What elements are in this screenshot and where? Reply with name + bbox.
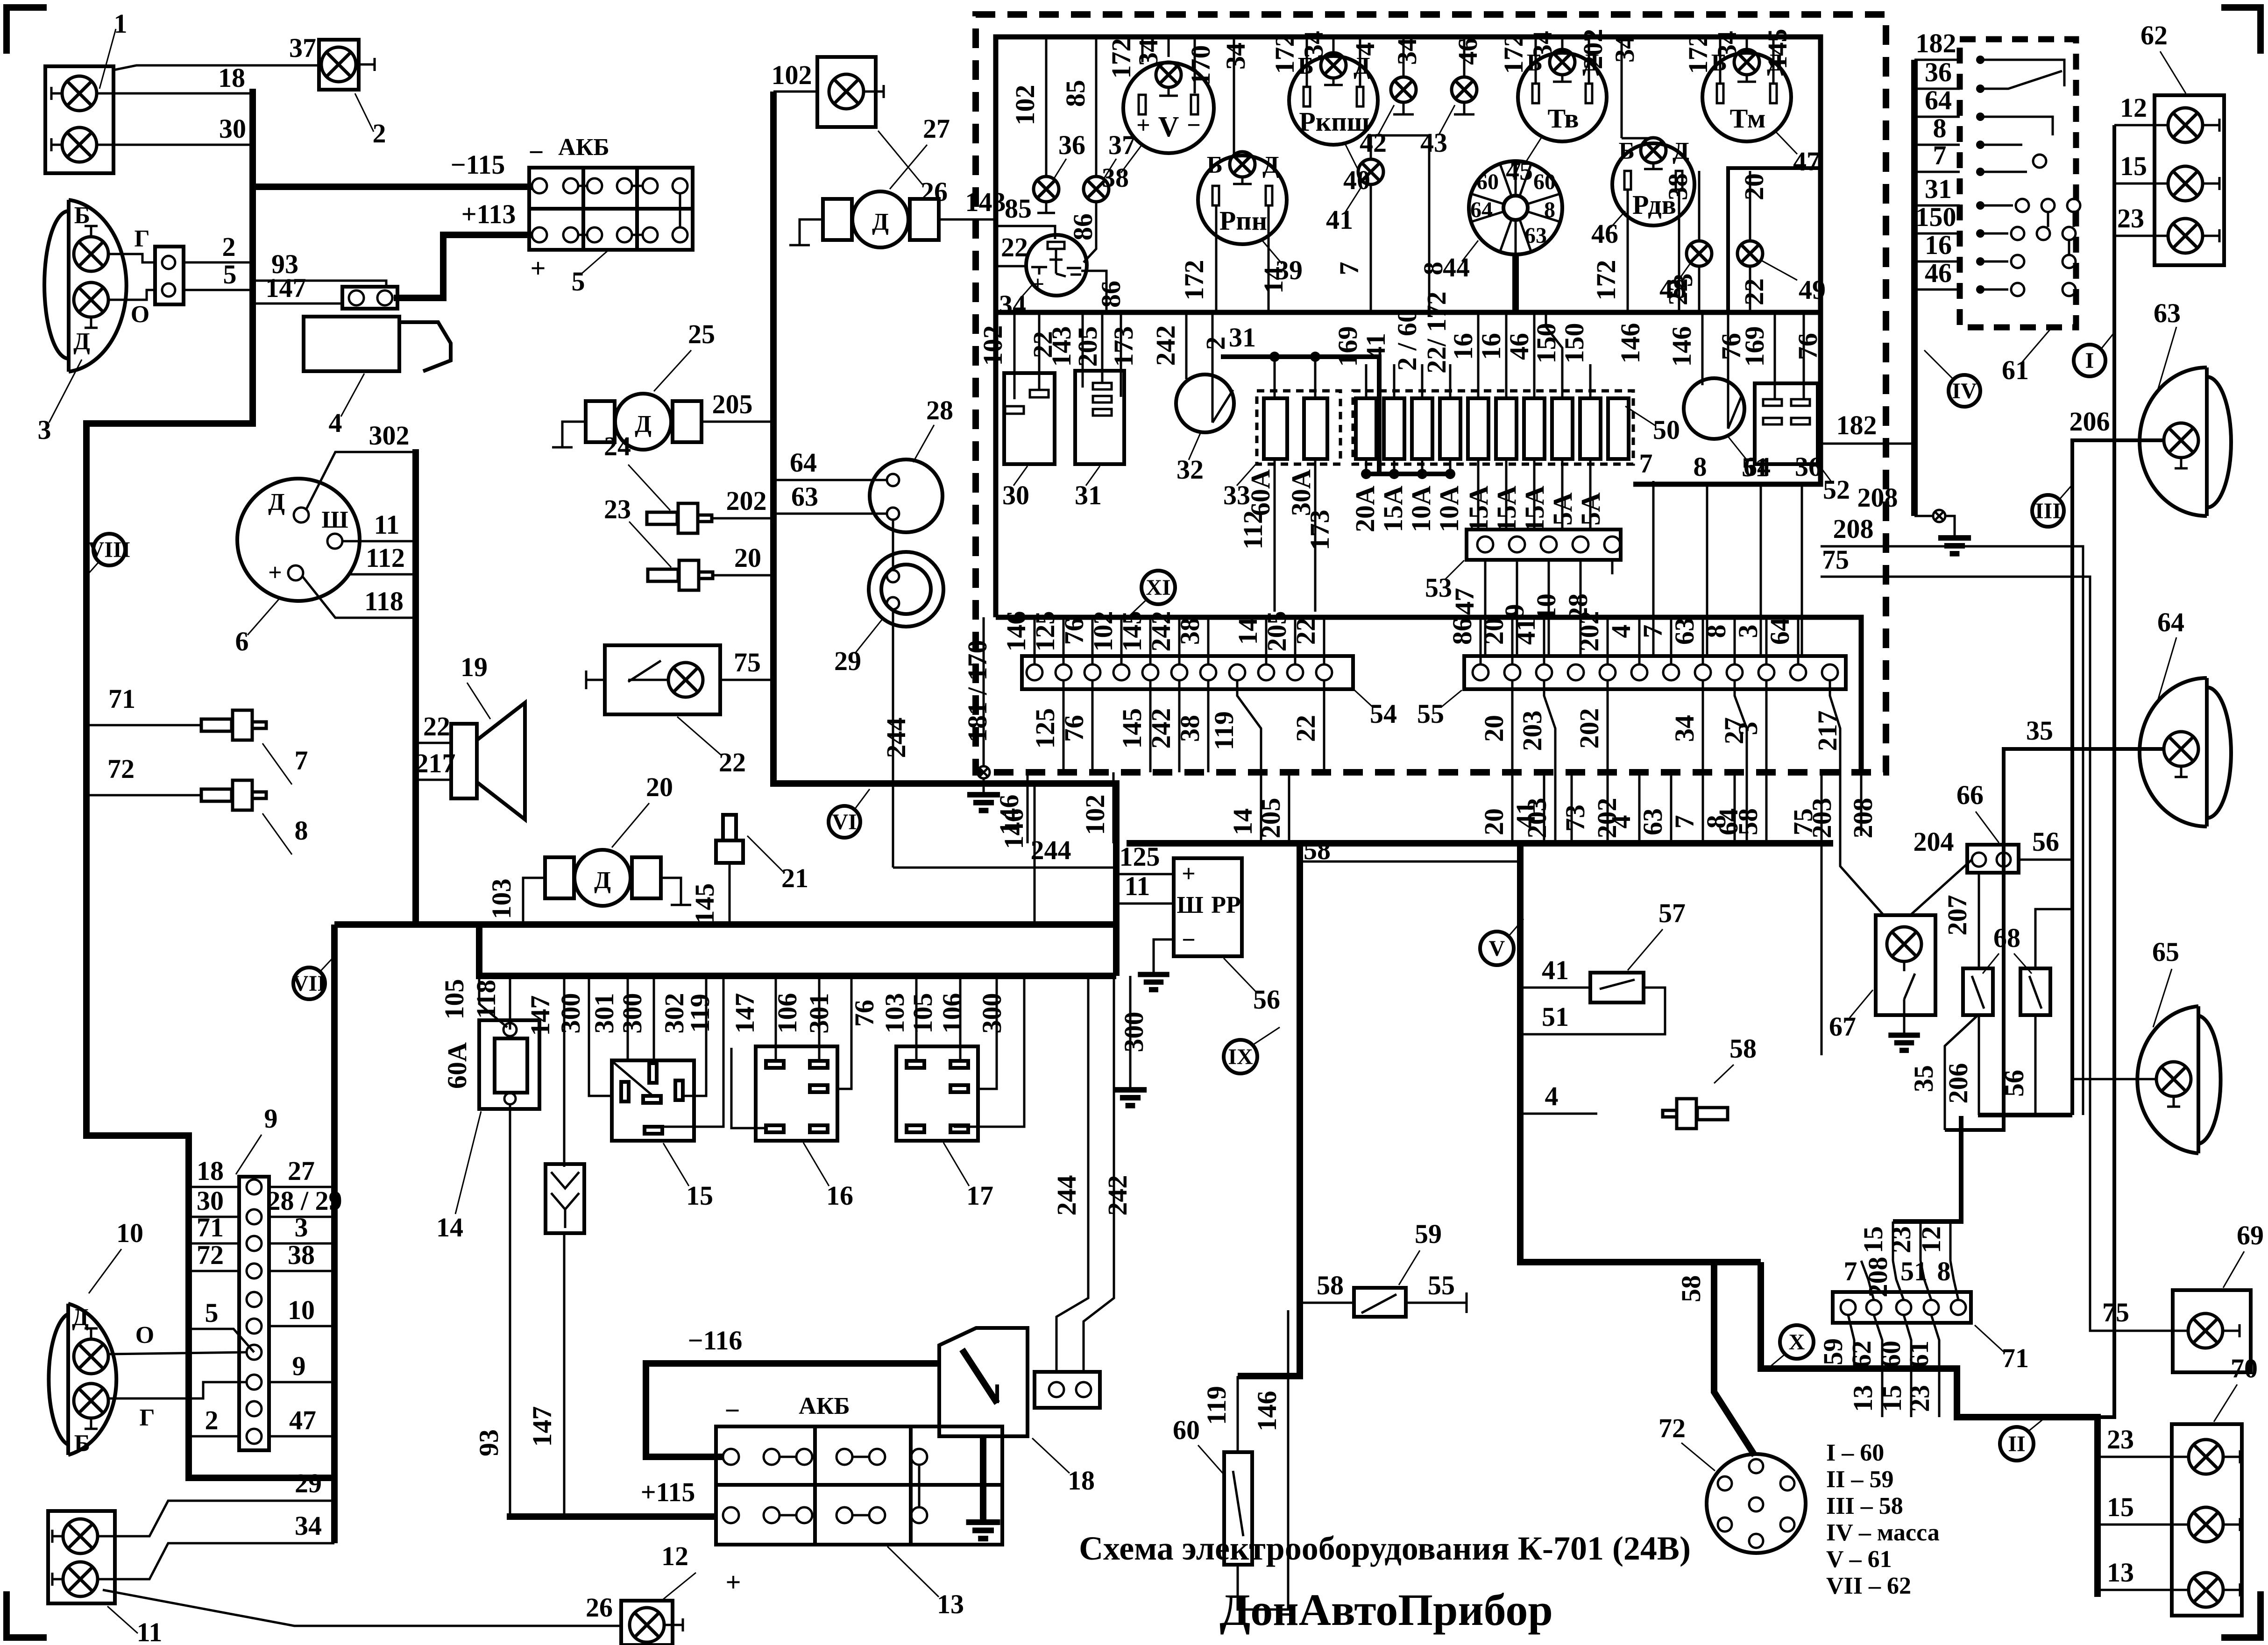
- svg-text:14: 14: [1233, 618, 1263, 645]
- svg-text:2: 2: [222, 232, 236, 262]
- connector 61 (dashed box with switch contacts): [1960, 39, 2080, 385]
- svg-text:30: 30: [219, 113, 246, 144]
- svg-text:61: 61: [2002, 355, 2029, 385]
- 15A/5A fuse drops to connector 53: [1477, 459, 1480, 530]
- svg-text:75: 75: [734, 647, 761, 678]
- wires below panel dashed border: [994, 772, 1885, 1055]
- svg-text:47: 47: [1793, 146, 1820, 177]
- wires below 68: [1945, 1015, 1978, 1130]
- svg-text:Д: Д: [268, 489, 285, 515]
- svg-text:4: 4: [1350, 42, 1380, 56]
- svg-text:34: 34: [1133, 39, 1163, 66]
- chevron arrow (to starter): [546, 1164, 584, 1233]
- svg-text:51: 51: [1542, 1002, 1569, 1032]
- switch 18 connector: [1035, 1372, 1100, 1408]
- svg-text:85: 85: [1060, 80, 1091, 107]
- svg-text:86: 86: [1447, 618, 1477, 645]
- svg-text:8: 8: [1544, 198, 1555, 222]
- wire -116 (thick): [646, 1363, 939, 1457]
- svg-text:41: 41: [1510, 801, 1541, 828]
- svg-text:125: 125: [1030, 611, 1060, 652]
- svg-text:55: 55: [1417, 699, 1444, 729]
- svg-text:208: 208: [1848, 798, 1878, 839]
- svg-text:45: 45: [1506, 155, 1533, 186]
- svg-text:35: 35: [2026, 715, 2053, 746]
- svg-text:38: 38: [1102, 162, 1129, 193]
- lamp-switch 67: [1829, 915, 1935, 1051]
- svg-text:22: 22: [719, 747, 746, 777]
- svg-text:20А: 20А: [1350, 486, 1380, 532]
- svg-text:VII – 62: VII – 62: [1826, 1573, 1911, 1599]
- headlight 63: [2140, 298, 2231, 516]
- svg-text:53: 53: [1425, 572, 1452, 603]
- svg-text:41: 41: [1542, 955, 1569, 985]
- gauge 39 (Рпн): [1198, 152, 1303, 285]
- svg-text:14: 14: [1227, 808, 1258, 835]
- svg-text:242: 242: [1146, 611, 1176, 652]
- svg-text:20: 20: [734, 543, 761, 573]
- svg-text:−: −: [528, 137, 544, 167]
- svg-text:+: +: [268, 559, 282, 586]
- svg-text:16: 16: [1448, 333, 1478, 360]
- motor 20 (Д): [545, 772, 691, 906]
- lamp unit 1 (box with two lamps): [45, 8, 128, 173]
- wire 202: [712, 517, 773, 520]
- svg-text:Ш: Ш: [321, 507, 348, 533]
- svg-text:34: 34: [1609, 35, 1640, 63]
- svg-text:34: 34: [1527, 31, 1558, 58]
- svg-text:60: 60: [1476, 169, 1499, 194]
- wire -115 (thick to battery): [253, 184, 532, 190]
- svg-text:59: 59: [1415, 1219, 1442, 1249]
- headlight 10: [49, 1218, 143, 1457]
- svg-text:208: 208: [1833, 514, 1874, 544]
- wire 56 from 66: [2019, 859, 2072, 861]
- svg-text:9: 9: [1499, 604, 1530, 618]
- wire 58 horizontal to PP area: [1300, 861, 1520, 863]
- svg-text:АКБ: АКБ: [558, 134, 610, 161]
- socket 28: [870, 395, 953, 532]
- node VIII: [88, 534, 130, 574]
- box 66: [1956, 780, 2019, 873]
- svg-text:34: 34: [1669, 715, 1700, 742]
- svg-text:302: 302: [369, 420, 410, 451]
- wire 75 to 69: [2090, 1055, 2188, 1331]
- lamp unit 62: [2140, 20, 2224, 265]
- gauge 46 (Рдв): [1591, 138, 1694, 249]
- svg-text:38: 38: [1663, 173, 1693, 200]
- node X: [1768, 1325, 1814, 1369]
- svg-text:11: 11: [137, 1617, 163, 1645]
- svg-text:Ш: Ш: [1177, 892, 1203, 918]
- wire 207: [1978, 873, 1980, 968]
- battery AKB 5: [528, 134, 693, 297]
- svg-text:202: 202: [1578, 29, 1608, 70]
- lamp 43: [1420, 37, 1477, 158]
- svg-text:23: 23: [1905, 1385, 1935, 1412]
- wire 35: [1945, 749, 2164, 1130]
- svg-text:24: 24: [604, 431, 631, 461]
- svg-text:15А: 15А: [1463, 486, 1494, 532]
- svg-text:13: 13: [1848, 1385, 1878, 1412]
- gauge 40 (Ркпш): [1289, 53, 1378, 195]
- svg-text:+: +: [1031, 271, 1045, 297]
- svg-text:146: 146: [1615, 323, 1645, 364]
- svg-text:75: 75: [1822, 544, 1849, 575]
- svg-text:РР: РР: [1211, 892, 1241, 918]
- wire 37 to lamp 2: [113, 65, 319, 70]
- lamp 37: [1084, 37, 1135, 262]
- svg-text:60: 60: [1533, 169, 1556, 194]
- svg-text:20: 20: [1479, 715, 1509, 742]
- svg-text:38: 38: [288, 1240, 315, 1270]
- legend: [1826, 1440, 1940, 1599]
- svg-text:22: 22: [1001, 232, 1028, 262]
- svg-text:208: 208: [1857, 482, 1898, 513]
- svg-text:76: 76: [1793, 333, 1823, 360]
- svg-text:181 / 170: 181 / 170: [962, 640, 992, 742]
- lamp 26 (top, cab lamp): [817, 57, 948, 207]
- svg-text:62: 62: [2140, 20, 2168, 50]
- sensor 58: [1520, 1033, 1757, 1129]
- svg-text:72: 72: [197, 1240, 224, 1270]
- svg-text:3: 3: [1733, 625, 1763, 638]
- svg-text:Тв: Тв: [1547, 103, 1579, 134]
- svg-text:30: 30: [197, 1186, 224, 1216]
- node I: [2074, 332, 2114, 376]
- gauge 38 (V voltmeter): [1102, 37, 1214, 193]
- svg-text:242: 242: [1102, 1175, 1133, 1216]
- svg-text:57: 57: [1658, 898, 1686, 928]
- svg-text:63: 63: [1669, 618, 1700, 645]
- svg-text:169: 169: [1332, 326, 1363, 367]
- relay 16: [756, 1046, 853, 1211]
- svg-text:68: 68: [1993, 923, 2020, 953]
- wire 11: [342, 540, 416, 543]
- svg-text:II: II: [2008, 1432, 2025, 1456]
- svg-text:56: 56: [1999, 1070, 2029, 1097]
- svg-text:4: 4: [1545, 1081, 1559, 1111]
- wire 170: [1194, 37, 1196, 93]
- connector 71 top stubs: [1844, 1116, 1962, 1300]
- svg-text:8: 8: [1937, 1256, 1951, 1286]
- svg-text:13: 13: [2107, 1557, 2134, 1588]
- svg-text:86: 86: [1068, 213, 1098, 240]
- svg-text:172: 172: [1269, 34, 1300, 74]
- svg-text:63: 63: [1524, 223, 1547, 248]
- wires below connector 53: [1484, 560, 1487, 656]
- svg-text:172: 172: [1683, 34, 1713, 74]
- svg-text:76: 76: [1059, 715, 1089, 742]
- svg-text:27: 27: [923, 113, 950, 144]
- wire Г from lamp to block: [108, 254, 155, 262]
- svg-text:2: 2: [205, 1405, 219, 1435]
- svg-text:64: 64: [1765, 618, 1795, 645]
- svg-text:34: 34: [295, 1511, 322, 1541]
- svg-text:206: 206: [2070, 406, 2110, 437]
- lamp 12: [621, 1541, 696, 1645]
- svg-text:67: 67: [1829, 1011, 1856, 1042]
- svg-text:145: 145: [689, 883, 720, 924]
- svg-text:146: 146: [1666, 326, 1697, 367]
- node III: [2032, 485, 2072, 527]
- svg-text:65: 65: [2152, 937, 2179, 967]
- svg-text:О: О: [131, 301, 149, 328]
- svg-text:23: 23: [2107, 1424, 2134, 1454]
- fuse block 33: [1223, 391, 1340, 516]
- svg-text:5А: 5А: [1575, 492, 1606, 525]
- lamp 42: [1360, 37, 1416, 158]
- wire 72: [86, 794, 201, 797]
- wire 217 to horn: [416, 779, 451, 781]
- svg-text:11: 11: [374, 509, 400, 540]
- svg-text:8: 8: [1701, 625, 1731, 638]
- svg-text:145: 145: [1117, 708, 1147, 749]
- svg-text:20: 20: [1739, 173, 1769, 200]
- svg-text:15: 15: [1877, 1385, 1907, 1412]
- svg-text:41: 41: [1510, 618, 1541, 645]
- svg-text:7: 7: [1844, 1256, 1857, 1286]
- svg-text:Д: Д: [635, 411, 652, 438]
- svg-text:19: 19: [461, 652, 488, 682]
- headlight 64: [2140, 607, 2231, 826]
- svg-text:205: 205: [1072, 326, 1103, 367]
- svg-text:16: 16: [826, 1180, 853, 1211]
- main right bus I: [2098, 125, 2114, 1417]
- wire 118 below fuse: [509, 1104, 511, 1517]
- VII header bus: [334, 921, 1116, 928]
- svg-text:55: 55: [1428, 1270, 1455, 1300]
- svg-text:103: 103: [486, 879, 517, 919]
- svg-text:242: 242: [1146, 708, 1176, 749]
- svg-text:15: 15: [686, 1180, 713, 1211]
- VI bus vertical: [773, 92, 1116, 976]
- svg-text:18: 18: [218, 63, 245, 93]
- svg-text:205: 205: [712, 389, 753, 419]
- svg-text:300: 300: [555, 993, 586, 1034]
- connector 55: [1417, 656, 1846, 729]
- svg-text:103: 103: [879, 993, 910, 1034]
- terminal block of headlight 3: [155, 247, 184, 304]
- svg-text:Б: Б: [1619, 138, 1635, 164]
- wire 2: [184, 261, 252, 264]
- svg-text:102: 102: [1080, 795, 1110, 835]
- connector 53: [1425, 530, 1621, 603]
- switch 57: [1520, 898, 1686, 1034]
- svg-text:54: 54: [1370, 699, 1397, 729]
- svg-text:64: 64: [1470, 198, 1493, 222]
- svg-text:206: 206: [1943, 1063, 1973, 1104]
- svg-text:35: 35: [1908, 1065, 1939, 1092]
- connector 71 bottom stubs: [1818, 1315, 1939, 1417]
- svg-text:26: 26: [586, 1592, 613, 1623]
- svg-text:13: 13: [937, 1589, 964, 1619]
- relay area drop wires: [439, 976, 1149, 1167]
- svg-text:Тм: Тм: [1730, 103, 1766, 134]
- svg-text:173: 173: [1304, 510, 1335, 551]
- connector 72: [1658, 1413, 1806, 1553]
- wire 75: [720, 679, 773, 681]
- svg-text:63: 63: [2154, 298, 2181, 328]
- headlight 10 leads: [108, 1352, 247, 1354]
- corner mark top-left: [7, 7, 47, 54]
- svg-text:V – 61: V – 61: [1826, 1546, 1892, 1573]
- svg-text:Д: Д: [72, 1304, 89, 1331]
- motor 25 (Д): [552, 319, 715, 450]
- svg-text:300: 300: [1119, 1012, 1149, 1052]
- svg-text:60: 60: [1876, 1341, 1906, 1368]
- wires 7 8: [1371, 135, 1429, 312]
- svg-text:64: 64: [790, 447, 817, 478]
- wire 102: [773, 91, 817, 93]
- svg-text:Д: Д: [1262, 152, 1279, 178]
- switch 51: [1666, 312, 1769, 482]
- svg-text:47: 47: [289, 1405, 316, 1435]
- svg-text:5А: 5А: [1547, 492, 1578, 525]
- svg-text:Б: Б: [74, 1430, 90, 1457]
- wire 208: [1821, 546, 2083, 1115]
- node IX: [1224, 1027, 1280, 1073]
- svg-text:18: 18: [197, 1156, 224, 1186]
- svg-text:70: 70: [2231, 1353, 2258, 1384]
- svg-text:112: 112: [1238, 510, 1268, 550]
- fuse block 50: [1353, 391, 1680, 464]
- svg-text:IV: IV: [1952, 379, 1977, 403]
- svg-text:208: 208: [1863, 1257, 1893, 1298]
- svg-text:Б: Б: [1207, 152, 1223, 178]
- svg-text:71: 71: [197, 1212, 224, 1243]
- wire 75: [1821, 577, 2090, 1055]
- svg-text:22: 22: [1290, 715, 1321, 742]
- svg-text:15: 15: [2107, 1492, 2134, 1522]
- wire 244 horizontal: [893, 867, 1116, 869]
- connector 54 top wires: [1001, 611, 1324, 665]
- svg-text:71: 71: [2002, 1343, 2029, 1373]
- svg-text:38: 38: [1175, 715, 1205, 742]
- svg-text:300: 300: [977, 993, 1007, 1034]
- svg-text:150: 150: [1916, 202, 1956, 232]
- wire О from lamp to block: [108, 290, 155, 300]
- svg-text:119: 119: [1209, 711, 1239, 750]
- wire 64: [773, 479, 887, 481]
- svg-text:41: 41: [1361, 333, 1391, 360]
- svg-text:102: 102: [978, 325, 1008, 366]
- svg-text:+: +: [1182, 861, 1196, 887]
- node V: [1480, 919, 1524, 965]
- svg-text:205: 205: [1262, 611, 1292, 652]
- svg-text:−115: −115: [451, 149, 505, 180]
- svg-text:15А: 15А: [1378, 486, 1408, 532]
- svg-text:41: 41: [1326, 205, 1353, 235]
- svg-text:V: V: [1489, 936, 1505, 961]
- fuse box 30: [978, 312, 1058, 510]
- svg-text:46: 46: [1925, 258, 1952, 288]
- svg-text:+113: +113: [461, 199, 516, 229]
- corner mark bottom-left: [7, 1591, 47, 1638]
- svg-text:106: 106: [937, 993, 967, 1034]
- wire 22 to horn: [416, 742, 451, 744]
- svg-text:−: −: [1182, 927, 1196, 953]
- svg-text:14: 14: [1258, 267, 1289, 294]
- wire 206: [2072, 440, 2164, 1115]
- svg-text:15А: 15А: [1491, 486, 1522, 532]
- fuse box 31: [1046, 312, 1139, 510]
- wire 147: [253, 303, 342, 305]
- wire 63: [773, 513, 887, 515]
- svg-text:Рпн: Рпн: [1219, 205, 1267, 236]
- svg-text:202: 202: [1574, 708, 1604, 749]
- svg-text:4: 4: [1606, 815, 1636, 829]
- wire 103: [523, 878, 545, 925]
- wire 143: [939, 219, 996, 221]
- svg-text:244: 244: [1031, 835, 1071, 865]
- svg-text:102: 102: [772, 60, 812, 90]
- svg-text:60А: 60А: [1245, 469, 1276, 516]
- svg-text:25: 25: [688, 319, 715, 349]
- node IV: [1924, 350, 1980, 407]
- wire 147 below: [563, 1233, 566, 1517]
- corner mark top-right: [2221, 7, 2261, 54]
- svg-text:18: 18: [1068, 1465, 1095, 1496]
- svg-text:IX: IX: [1228, 1045, 1253, 1069]
- svg-text:182: 182: [1836, 410, 1877, 440]
- sensor 7: [201, 710, 308, 784]
- motor 27 (Д): [789, 113, 950, 247]
- svg-text:146: 146: [1252, 1391, 1282, 1432]
- wire 5: [184, 289, 252, 291]
- wires of 39: [1215, 205, 1218, 312]
- svg-text:58: 58: [1676, 1275, 1706, 1302]
- svg-text:12: 12: [661, 1541, 688, 1571]
- svg-text:X: X: [1789, 1330, 1805, 1355]
- wire to lamp 65: [2072, 1078, 2156, 1080]
- svg-text:34: 34: [1298, 31, 1329, 58]
- svg-text:150: 150: [1559, 323, 1589, 364]
- svg-text:III: III: [2035, 499, 2061, 523]
- svg-text:17: 17: [966, 1180, 993, 1211]
- node XI: [1128, 571, 1175, 617]
- wire 18: [97, 92, 253, 95]
- svg-text:2 / 60: 2 / 60: [1392, 309, 1422, 371]
- svg-text:34: 34: [999, 289, 1026, 320]
- svg-text:7: 7: [1639, 448, 1653, 479]
- svg-text:59: 59: [1818, 1338, 1848, 1365]
- +115 bus: [507, 1513, 716, 1520]
- sensor 8: [201, 780, 308, 854]
- rotary gauge 44: [1443, 158, 1562, 282]
- gauge 45 (Тв): [1506, 49, 1607, 186]
- svg-text:14: 14: [436, 1212, 463, 1243]
- svg-text:56: 56: [2032, 826, 2059, 857]
- wire 145: [729, 890, 731, 925]
- svg-text:38: 38: [1175, 618, 1205, 645]
- wire 34 right of 45: [1621, 37, 1623, 138]
- svg-text:+: +: [1136, 112, 1150, 139]
- panel top box: [996, 37, 1821, 617]
- voltage regulator PP 56: [1138, 858, 1280, 1015]
- svg-text:20: 20: [646, 772, 673, 802]
- svg-text:34: 34: [1392, 38, 1422, 65]
- svg-text:73: 73: [1560, 805, 1590, 832]
- wire 146: [1034, 784, 1036, 925]
- wire 302: [306, 452, 416, 510]
- svg-text:Г: Г: [134, 226, 149, 252]
- svg-text:32: 32: [1177, 454, 1204, 485]
- svg-text:69: 69: [2237, 1220, 2264, 1250]
- svg-text:47: 47: [1449, 588, 1480, 615]
- wires 12 15 23: [2114, 124, 2168, 127]
- svg-text:182: 182: [1916, 28, 1956, 58]
